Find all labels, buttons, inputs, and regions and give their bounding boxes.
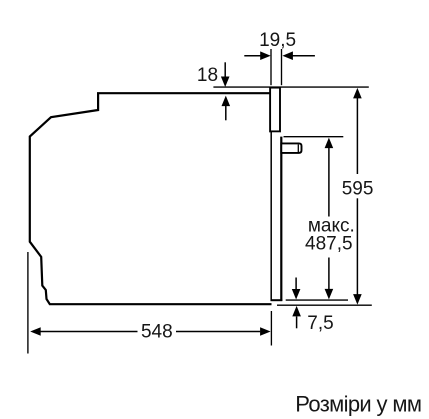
svg-text:548: 548 <box>141 322 173 343</box>
svg-text:7,5: 7,5 <box>307 313 333 334</box>
svg-text:Розміри у мм: Розміри у мм <box>295 392 421 417</box>
svg-text:19,5: 19,5 <box>259 30 296 51</box>
svg-text:595: 595 <box>342 178 374 199</box>
svg-text:18: 18 <box>197 65 218 86</box>
svg-text:487,5: 487,5 <box>305 234 353 255</box>
